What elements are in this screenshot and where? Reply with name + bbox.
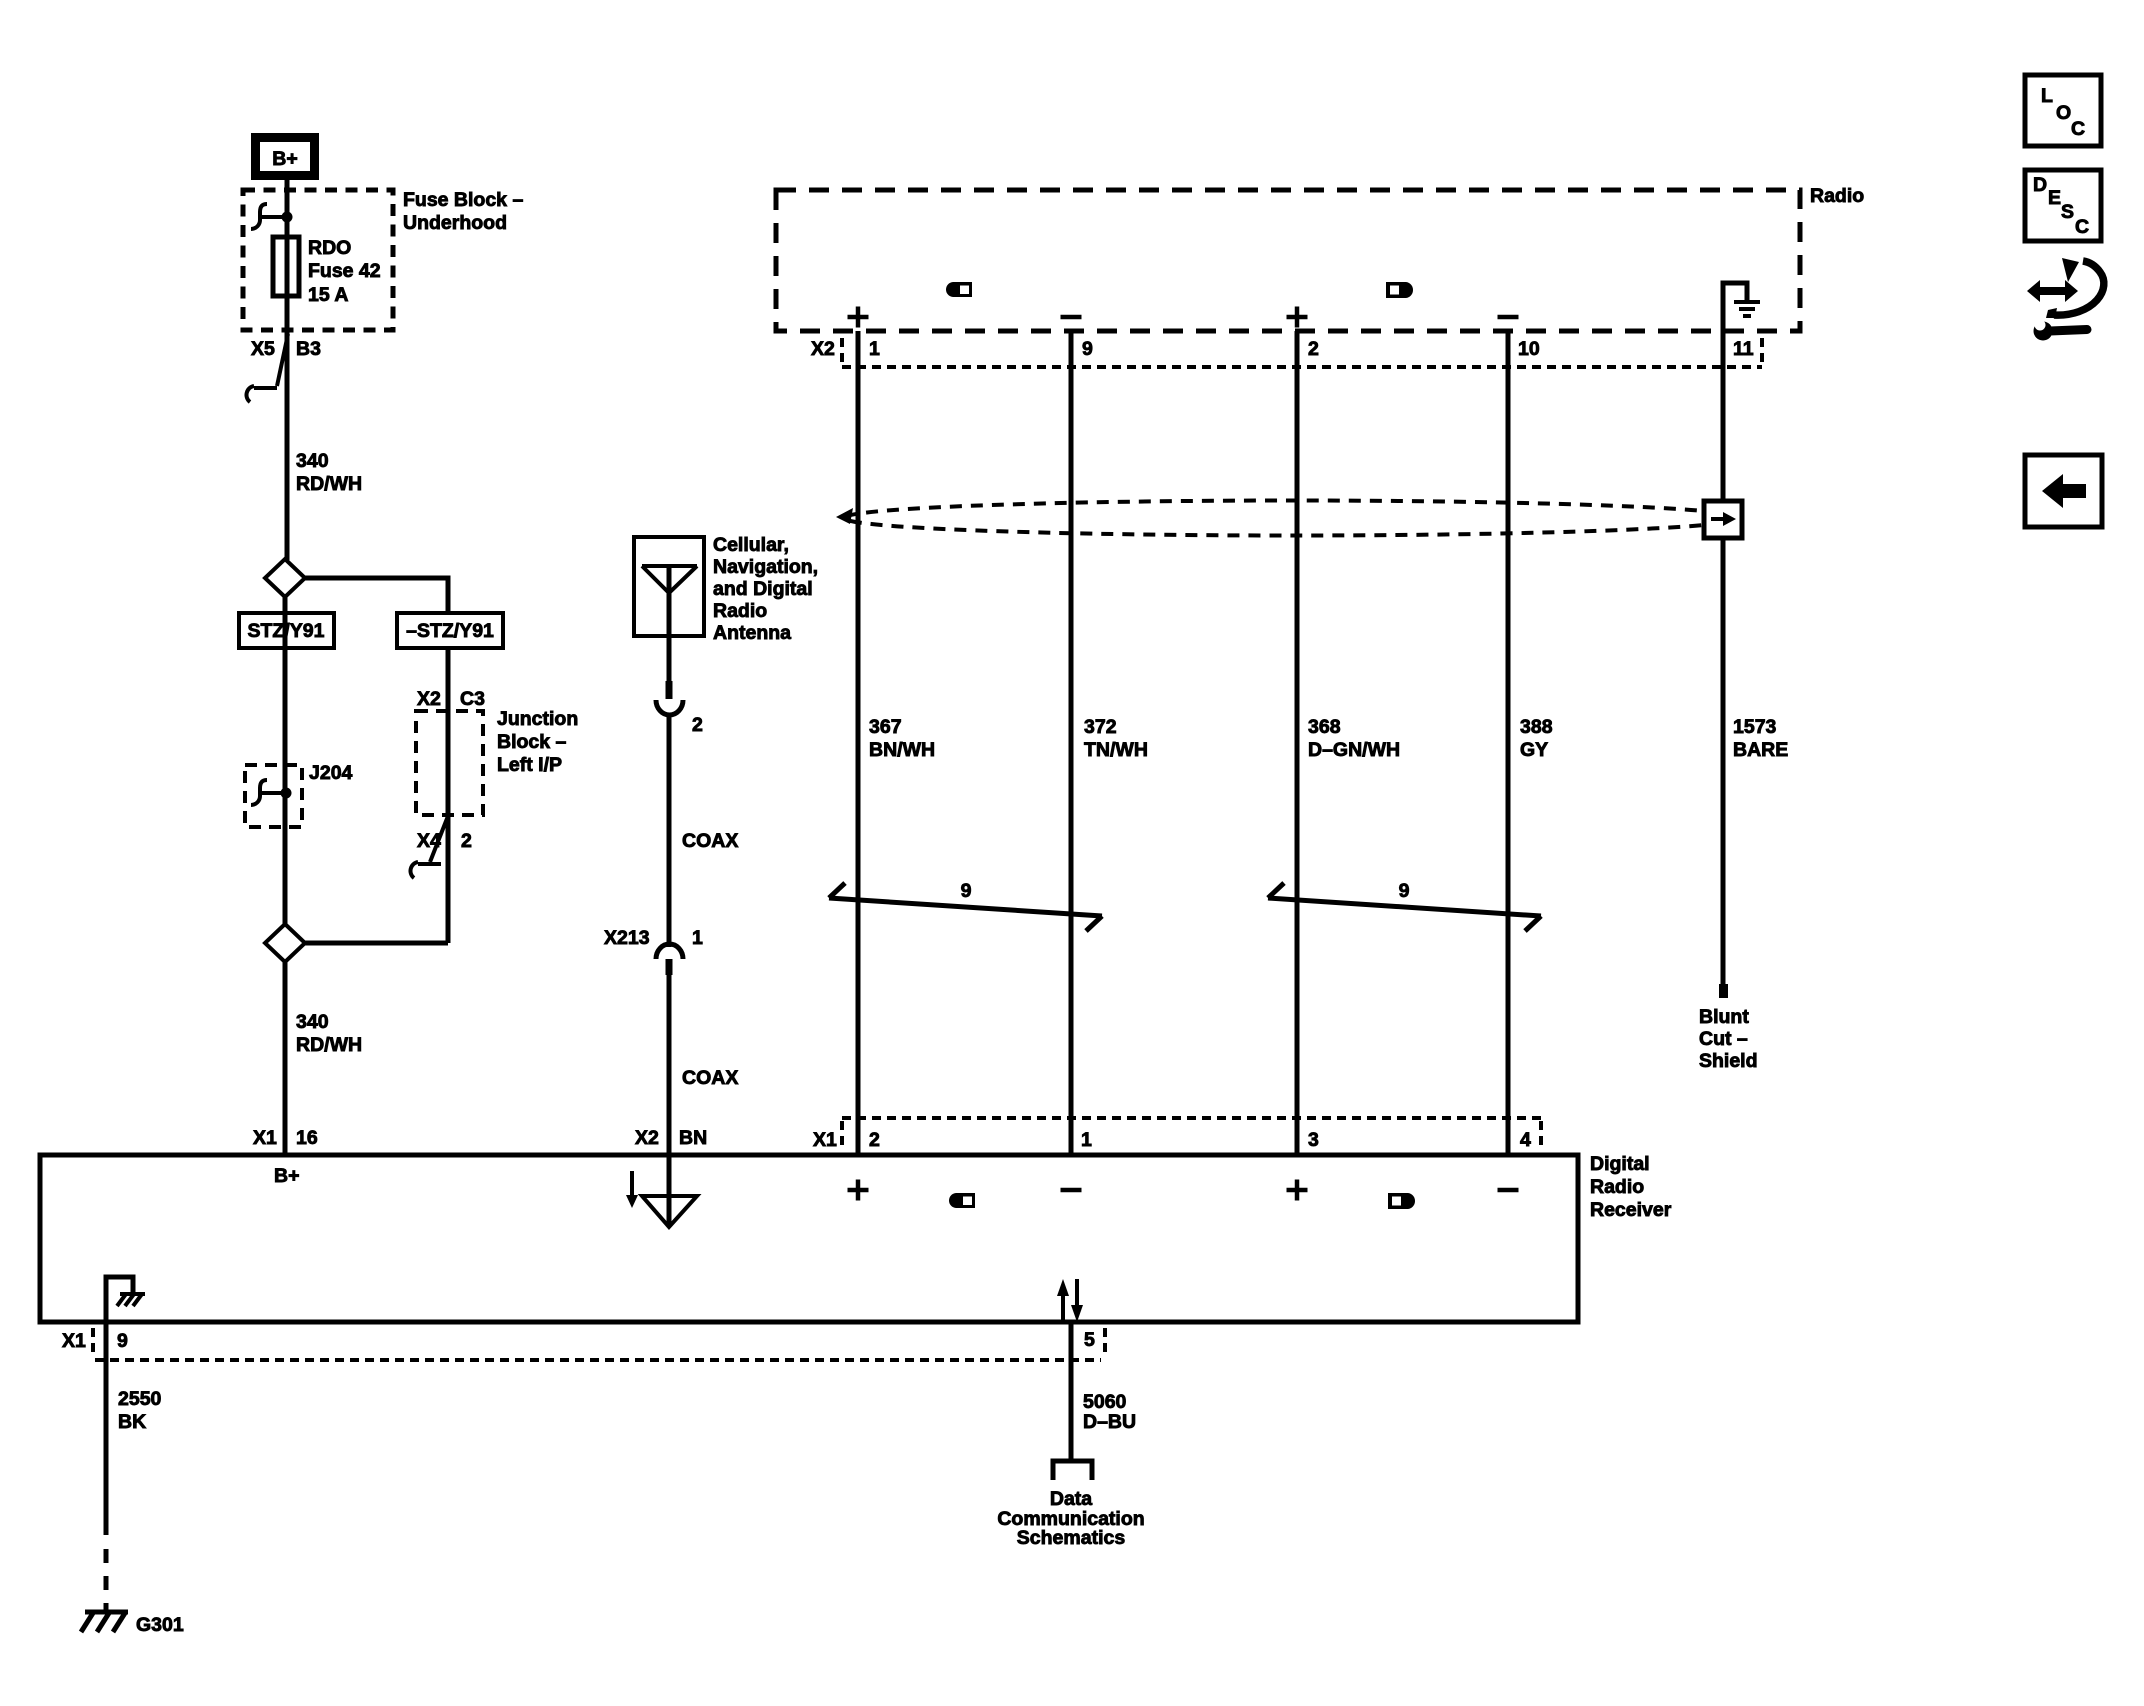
splice diamond upper	[265, 559, 305, 597]
splice diamond lower	[265, 924, 305, 962]
svg-text:L: L	[2041, 85, 2053, 107]
inline connector X213 male terminal	[666, 959, 673, 975]
twisted pair marker left	[829, 883, 1102, 931]
branch wire to -STZ/Y91	[305, 578, 448, 613]
svg-text:Radio: Radio	[713, 600, 767, 622]
connector X2 strip dashed	[842, 338, 1762, 367]
connector X213 label	[604, 927, 703, 949]
svg-text:Left I/P: Left I/P	[497, 754, 562, 776]
wire STZ/Y91 down through J204	[283, 597, 288, 924]
junction dot at fuse feed	[282, 212, 293, 223]
svg-text:9: 9	[961, 880, 972, 902]
svg-text:2: 2	[692, 714, 703, 736]
wire label 372 TN/WH	[1084, 716, 1148, 761]
svg-text:B+: B+	[272, 148, 297, 170]
radio dashed box	[776, 190, 1800, 331]
radio twisted pair icon left	[946, 282, 972, 297]
svg-text:X2: X2	[635, 1127, 659, 1149]
svg-text:3: 3	[1308, 1129, 1319, 1151]
pin X2 / C3 labels	[417, 688, 485, 710]
svg-text:D: D	[2033, 174, 2047, 196]
antenna Cellular Navigation Digital Radio	[634, 537, 704, 681]
svg-text:Shield: Shield	[1699, 1050, 1758, 1072]
svg-text:340: 340	[296, 1011, 329, 1033]
shield ellipse left arrow	[836, 508, 853, 524]
svg-text:2: 2	[869, 1129, 880, 1151]
svg-text:X1: X1	[253, 1127, 277, 1149]
inline connector X213 female cup	[656, 944, 683, 959]
svg-text:Digital: Digital	[1590, 1153, 1650, 1175]
terminal hook in J204	[251, 780, 286, 805]
svg-text:Fuse Block –: Fuse Block –	[403, 189, 523, 211]
connector X1 ground strip dashed	[93, 1328, 1105, 1360]
svg-text:Navigation,: Navigation,	[713, 556, 818, 578]
svg-text:RD/WH: RD/WH	[296, 1034, 362, 1056]
svg-text:5: 5	[1084, 1329, 1095, 1351]
pin X5 / B3 labels	[251, 338, 321, 360]
receiver pin 3 plus polarity	[1287, 1180, 1308, 1201]
svg-text:1573: 1573	[1733, 716, 1777, 738]
svg-text:BN/WH: BN/WH	[869, 739, 935, 761]
data communication schematics label	[997, 1488, 1144, 1549]
wire 2550 BK dashed	[104, 1549, 109, 1612]
splice J204 dashed box	[245, 765, 302, 827]
blunt cut shield end	[1719, 984, 1728, 998]
svg-text:2: 2	[461, 830, 472, 852]
wire -STZ/Y91 down through junction block	[446, 648, 451, 943]
wire 388 GY	[1506, 331, 1511, 1155]
svg-text:10: 10	[1518, 338, 1540, 360]
svg-text:372: 372	[1084, 716, 1117, 738]
svg-text:5060: 5060	[1083, 1391, 1127, 1413]
svg-text:RD/WH: RD/WH	[296, 473, 362, 495]
wire label 368 D-GN/WH	[1308, 716, 1400, 761]
svg-text:11: 11	[1733, 338, 1754, 360]
svg-text:Schematics: Schematics	[1017, 1527, 1126, 1549]
fuse block label	[403, 189, 523, 234]
radio pin 9 minus polarity	[1061, 315, 1082, 320]
svg-text:Cut –: Cut –	[1699, 1028, 1748, 1050]
inline connector pin 2 female cup	[656, 700, 683, 715]
svg-text:G301: G301	[136, 1614, 184, 1636]
wire 368 D-GN/WH	[1295, 331, 1300, 1155]
wire 2550 BK solid	[104, 1322, 109, 1535]
receiver pin 4 minus polarity	[1498, 1188, 1519, 1193]
radio internal ground symbol	[1723, 283, 1760, 331]
receiver data arrows	[1057, 1279, 1083, 1322]
svg-text:Receiver: Receiver	[1590, 1199, 1672, 1221]
ground G301	[81, 1612, 128, 1632]
svg-text:X2: X2	[417, 688, 441, 710]
svg-text:367: 367	[869, 716, 902, 738]
wire 367 BN/WH	[856, 331, 861, 1155]
svg-text:X5: X5	[251, 338, 275, 360]
sidebar connector-view icon wrench	[2034, 320, 2088, 341]
svg-text:Blunt: Blunt	[1699, 1006, 1749, 1028]
node B+ battery feed	[256, 138, 315, 176]
svg-text:9: 9	[117, 1330, 128, 1352]
svg-text:S: S	[2061, 201, 2074, 223]
svg-text:–STZ/Y91: –STZ/Y91	[406, 620, 494, 642]
shield termination box	[1704, 501, 1742, 538]
radio pin 1 plus polarity	[848, 307, 869, 328]
svg-text:D–GN/WH: D–GN/WH	[1308, 739, 1400, 761]
coax wire antenna to X213	[667, 714, 672, 947]
receiver twisted pair icon left	[949, 1193, 975, 1208]
wire label 340 RD/WH upper	[296, 450, 362, 495]
svg-text:340: 340	[296, 450, 329, 472]
svg-text:Radio: Radio	[1810, 185, 1864, 207]
svg-text:Block –: Block –	[497, 731, 567, 753]
inline connector pin 2 male terminal	[666, 681, 673, 699]
svg-text:9: 9	[1399, 880, 1410, 902]
receiver antenna input arrow	[626, 1171, 638, 1208]
svg-text:Radio: Radio	[1590, 1176, 1644, 1198]
svg-text:15 A: 15 A	[308, 284, 348, 306]
receiver pin 1 minus polarity	[1061, 1188, 1082, 1193]
wire label 340 RD/WH lower	[296, 1011, 362, 1056]
receiver antenna symbol	[642, 1196, 697, 1227]
svg-text:Junction: Junction	[497, 708, 578, 730]
svg-text:and Digital: and Digital	[713, 578, 813, 600]
svg-text:X1: X1	[813, 1129, 837, 1151]
svg-text:1: 1	[692, 927, 703, 949]
svg-text:Underhood: Underhood	[403, 212, 507, 234]
svg-text:TN/WH: TN/WH	[1084, 739, 1148, 761]
svg-text:RDO: RDO	[308, 237, 351, 259]
pin X1 / 16 labels	[253, 1127, 318, 1149]
wire label 5060 D-BU	[1083, 1391, 1136, 1433]
svg-text:X2: X2	[811, 338, 835, 360]
svg-text:Fuse 42: Fuse 42	[308, 260, 381, 282]
svg-text:1: 1	[1081, 1129, 1092, 1151]
off page connector to data schematics	[1053, 1461, 1092, 1480]
pin X4 / 2 labels	[417, 830, 472, 852]
receiver internal ground path	[106, 1277, 145, 1322]
svg-text:COAX: COAX	[682, 1067, 738, 1089]
svg-text:BARE: BARE	[1733, 739, 1788, 761]
net name -STZ/Y91	[397, 613, 503, 648]
fuse block underhood dashed box	[243, 190, 393, 330]
branch wire from junction block to lower diamond	[305, 941, 448, 946]
antenna label	[713, 534, 818, 644]
svg-text:1: 1	[869, 338, 880, 360]
svg-text:E: E	[2048, 187, 2061, 209]
junction block left I/P dashed box	[416, 711, 483, 815]
svg-text:C: C	[2071, 118, 2085, 140]
junction block label	[497, 708, 578, 776]
net name STZ/Y91	[239, 613, 334, 648]
wire B+ to fuse and down to splice diamond	[285, 179, 290, 560]
connector terminal hook X4	[410, 816, 448, 878]
svg-text:BK: BK	[118, 1411, 146, 1433]
svg-text:B+: B+	[274, 1165, 299, 1187]
svg-text:2: 2	[1308, 338, 1319, 360]
svg-text:C: C	[2075, 216, 2089, 238]
svg-text:BN: BN	[679, 1127, 707, 1149]
svg-text:GY: GY	[1520, 739, 1548, 761]
connector terminal hook X5	[246, 334, 288, 402]
svg-text:16: 16	[296, 1127, 318, 1149]
sidebar connector-view icon curved outline	[2046, 258, 2104, 318]
svg-text:O: O	[2056, 102, 2071, 124]
junction dot J204	[281, 788, 292, 799]
pin X2 / BN labels	[635, 1127, 707, 1149]
svg-text:COAX: COAX	[682, 830, 738, 852]
coax wire X213 to receiver	[667, 975, 672, 1224]
svg-text:Antenna: Antenna	[713, 622, 791, 644]
svg-text:388: 388	[1520, 716, 1553, 738]
svg-text:D–BU: D–BU	[1083, 1411, 1136, 1433]
fuse RDO Fuse 42 15 A	[273, 237, 381, 306]
svg-text:X1: X1	[62, 1330, 86, 1352]
svg-text:C3: C3	[460, 688, 485, 710]
twisted pair marker right	[1268, 883, 1541, 931]
svg-text:2550: 2550	[118, 1388, 162, 1410]
connector X1 strip dashed (receiver top)	[842, 1118, 1541, 1150]
wire label 367 BN/WH	[869, 716, 935, 761]
radio pin 10 minus polarity	[1498, 315, 1519, 320]
shield termination arrow	[1711, 512, 1736, 526]
svg-text:X213: X213	[604, 927, 650, 949]
receiver label	[1590, 1153, 1672, 1221]
sidebar back button	[2025, 455, 2102, 527]
svg-text:4: 4	[1520, 1129, 1531, 1151]
svg-text:368: 368	[1308, 716, 1341, 738]
wire label 2550 BK	[118, 1388, 162, 1433]
wire label 388 GY	[1520, 716, 1553, 761]
sidebar connector-view icon double arrow	[2027, 280, 2078, 302]
receiver pin 2 plus polarity	[848, 1180, 869, 1201]
receiver twisted pair icon right	[1388, 1193, 1415, 1209]
svg-text:B3: B3	[296, 338, 321, 360]
terminal hook in fuse block	[251, 204, 287, 229]
wire 1573 BARE shield drain	[1721, 331, 1726, 984]
radio twisted pair icon right	[1386, 282, 1413, 298]
radio pin 2 plus polarity	[1287, 307, 1308, 328]
svg-text:J204: J204	[309, 762, 353, 784]
wire lower diamond to receiver	[283, 962, 288, 1155]
shield ellipse dashed	[844, 501, 1742, 536]
wire 5060 D-BU	[1069, 1322, 1074, 1461]
svg-text:9: 9	[1082, 338, 1093, 360]
sidebar LOC button	[2025, 75, 2101, 146]
sidebar DESC button	[2025, 170, 2101, 241]
digital radio receiver box	[40, 1155, 1578, 1322]
svg-text:Data: Data	[1050, 1488, 1092, 1510]
wire label 1573 BARE	[1733, 716, 1788, 761]
wire 372 TN/WH	[1069, 331, 1074, 1155]
blunt cut label	[1699, 1006, 1758, 1072]
svg-text:Cellular,: Cellular,	[713, 534, 789, 556]
